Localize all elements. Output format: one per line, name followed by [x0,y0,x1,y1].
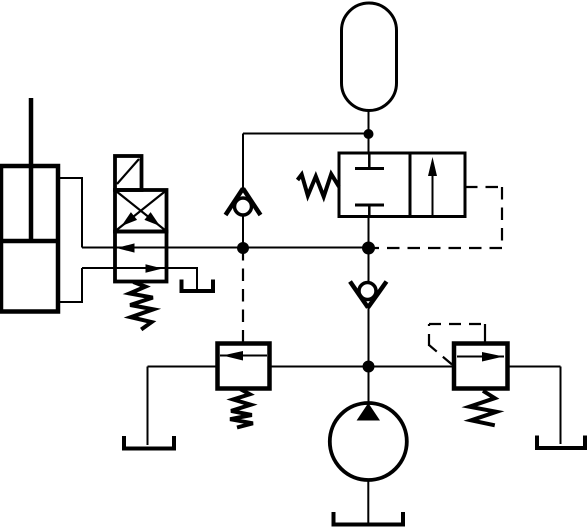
directional valve V1 flow position box [115,232,167,282]
check valve CV1 (upper) [226,189,261,248]
node main junction [362,242,375,255]
unloading valve V2 spring [298,174,340,197]
counterbalance valve V3 spring [230,389,253,427]
wire relief valve to tank T4 [560,367,562,445]
tank T1 (beside directional valve) [182,280,214,292]
wire line B (valve to tank T1) [82,268,197,291]
pump P1 [330,403,407,480]
wire accumulator drop [368,111,370,154]
cylinder body [1,166,58,312]
wire cylinder upper port [58,178,82,248]
accumulator [342,3,397,111]
cylinder rod [29,98,34,239]
directional valve V1 spring [130,282,154,330]
counterbalance valve V3 arrow [220,351,267,361]
wire main line A (cylinder to junction under unloading valve) [82,247,369,249]
counterbalance valve V3 body [218,344,270,389]
unloading valve V2 pilot dashed line [369,187,503,248]
wire pump suction [367,480,369,523]
tank T3 (pump suction) [334,512,404,525]
wire junction to pump [368,367,370,405]
wire pilot check line vertical [242,134,244,189]
directional valve V1 solenoid box [115,156,142,190]
check valve CV2 (lower) [350,248,387,366]
directional valve V1 crossed-arrows position box [115,190,167,232]
wire cylinder lower port [58,268,82,302]
wire upper horizontal (to accumulator node) [243,133,369,135]
wire bottom rail [148,366,561,368]
relief valve V4 pilot loop [429,324,485,365]
relief valve V4 spring [469,391,496,426]
tank T2 (bottom left) [124,436,174,449]
wire pilot dashed to counterbalance valve [242,248,244,344]
node accumulator junction [364,129,374,139]
wire drop to tank T2 [147,367,149,446]
tank T4 (bottom right) [537,436,585,449]
unloading valve V2 open position arrow [428,157,437,217]
relief valve V4 body [454,344,508,389]
wire under valve V2 [368,217,370,249]
cylinder piston [1,239,58,244]
node pump junction [363,361,375,373]
node check valve junction [237,242,249,254]
unloading valve V2 closed position ticks [355,153,384,217]
unloading valve V2 body [339,153,465,217]
relief valve V4 arrow [457,352,504,362]
